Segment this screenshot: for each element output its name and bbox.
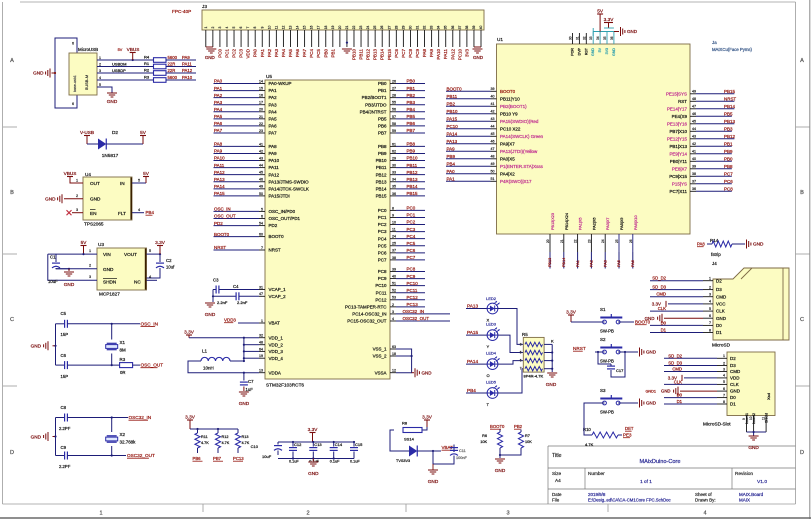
svg-text:SD_D2: SD_D2 (652, 276, 666, 281)
net label PC6 (396, 252, 425, 254)
U5 pin 10 PC2 (390, 224, 396, 226)
svg-text:19: 19 (331, 26, 335, 30)
svg-text:PC9: PC9 (407, 274, 416, 279)
svg-text:PB13: PB13 (376, 179, 387, 184)
svg-text:PA13: PA13 (447, 139, 458, 144)
svg-text:35: 35 (603, 36, 607, 40)
svg-text:PA12: PA12 (214, 170, 225, 175)
svg-text:PB9: PB9 (407, 149, 416, 154)
svg-text:4: 4 (99, 76, 101, 80)
svg-text:3: 3 (392, 310, 394, 314)
wire cap rail top (278, 441, 354, 443)
wire R5 out 4 (544, 368, 552, 370)
svg-text:2: 2 (89, 264, 91, 268)
svg-text:PB1: PB1 (330, 48, 335, 57)
svg-text:R2: R2 (144, 68, 150, 73)
svg-text:7: 7 (246, 26, 250, 28)
svg-text:46: 46 (259, 178, 263, 182)
svg-text:Number: Number (588, 471, 605, 476)
wire R5 out 3 (544, 360, 552, 362)
svg-text:PB8: PB8 (407, 142, 416, 147)
svg-text:GND: GND (753, 242, 764, 247)
XS2 pin 6 GND (717, 390, 727, 392)
svg-text:5V: 5V (598, 47, 602, 52)
svg-text:PC8: PC8 (407, 267, 416, 272)
U1 pin 49 PB15 (690, 93, 696, 95)
svg-text:23: 23 (587, 239, 591, 243)
net label PC9 (396, 278, 425, 280)
svg-text:C4: C4 (233, 284, 239, 289)
net label PA14 U1 (446, 135, 491, 137)
U5 pin 13 VDDA (259, 372, 265, 374)
svg-text:D1: D1 (677, 399, 683, 404)
wire R5 out 1 (544, 343, 552, 345)
U5 pin 34 PB13 (390, 181, 396, 183)
svg-text:R3: R3 (120, 357, 126, 362)
svg-text:B: B (800, 190, 804, 196)
J4 pin 1 D2 (703, 280, 713, 282)
svg-text:PB0|Y11: PB0|Y11 (670, 159, 688, 164)
svg-text:PA7: PA7 (269, 131, 278, 136)
svg-text:EN: EN (90, 211, 97, 216)
svg-text:PB3/JTDO: PB3/JTDO (365, 102, 387, 107)
svg-text:Date: Date (552, 492, 562, 497)
net label D1 J4 (650, 332, 703, 334)
svg-text:R4: R4 (144, 55, 150, 60)
svg-text:1: 1 (76, 179, 78, 183)
svg-text:U3: U3 (98, 242, 104, 247)
U5 pin 29 PB10 (390, 160, 396, 162)
svg-text:46: 46 (692, 112, 696, 116)
svg-text:46: 46 (491, 140, 495, 144)
svg-text:PA6: PA6 (295, 48, 300, 57)
svg-text:PC3: PC3 (378, 229, 387, 234)
svg-text:PB13|X23: PB13|X23 (551, 213, 555, 230)
U5 pin 45 PA12 (259, 174, 265, 176)
svg-text:C2: C2 (166, 258, 172, 263)
net label PA13 LED (466, 308, 487, 310)
net label PB1 (396, 90, 425, 92)
svg-text:5: 5 (232, 26, 236, 28)
svg-text:PE15|SYS: PE15|SYS (666, 91, 687, 96)
svg-text:PA14: PA14 (467, 359, 479, 364)
wire X1 left rail (55, 324, 57, 365)
svg-text:MAIX: MAIX (739, 498, 750, 503)
title block (548, 446, 796, 504)
U5 pin 41 PA8 (259, 145, 265, 147)
svg-text:PB2: PB2 (447, 102, 456, 107)
svg-text:PC1: PC1 (378, 215, 387, 220)
svg-text:PA0: PA0 (214, 79, 223, 84)
U5 pin 59 PB7 (390, 132, 396, 134)
wire USB pin5 (97, 87, 112, 93)
net label PB8 U1r (696, 168, 732, 170)
net label PA6 bottom (632, 252, 634, 269)
net label PA15 LED (466, 334, 487, 336)
svg-text:PA15/JTDI: PA15/JTDI (269, 193, 290, 198)
svg-text:GND: GND (205, 55, 216, 60)
svg-text:6: 6 (72, 102, 74, 106)
net label D0 J4 (650, 324, 703, 326)
svg-text:PA9|X7: PA9|X7 (500, 141, 515, 146)
svg-text:Drawn By:: Drawn By: (695, 498, 716, 503)
svg-text:PE14|Y17: PE14|Y17 (667, 106, 688, 111)
net label PB13 bottom (549, 252, 551, 269)
svg-text:O: O (487, 373, 490, 378)
svg-text:PB1: PB1 (378, 88, 387, 93)
svg-text:26: 26 (392, 79, 396, 83)
svg-text:SD_D2: SD_D2 (668, 353, 682, 358)
svg-text:SS14: SS14 (404, 437, 415, 442)
svg-text:1 of 1: 1 of 1 (640, 479, 652, 484)
svg-text:V1.0: V1.0 (757, 479, 767, 485)
svg-text:SD_D3: SD_D3 (668, 361, 682, 366)
capacitor C15 0.1uF (353, 442, 355, 447)
svg-text:BOOT0: BOOT0 (269, 234, 285, 239)
svg-text:PA8: PA8 (697, 242, 705, 247)
svg-text:31: 31 (415, 26, 419, 30)
svg-text:CMD: CMD (716, 294, 727, 299)
svg-text:10K: 10K (480, 440, 487, 444)
svg-text:44: 44 (259, 164, 263, 168)
U5 pin 48 VDD_2 (259, 344, 265, 346)
svg-text:Sheet of: Sheet of (695, 492, 712, 497)
svg-text:SW-PB: SW-PB (600, 359, 614, 364)
U5 pin 37 PC6 (390, 252, 396, 254)
svg-text:Title: Title (552, 453, 562, 459)
svg-text:11: 11 (762, 416, 766, 420)
svg-text:35: 35 (392, 185, 396, 189)
svg-text:10K: 10K (525, 440, 532, 444)
svg-text:7: 7 (520, 367, 522, 371)
U5 pin 5 OSC_IN/PD0 (259, 210, 265, 212)
svg-text:4.7K: 4.7K (585, 442, 594, 447)
net label SD_D2 XS2 (664, 357, 717, 359)
svg-text:PA11: PA11 (269, 165, 280, 170)
svg-text:8: 8 (723, 400, 725, 404)
ground R5 (547, 372, 557, 374)
U5 pin 19 VDD_4 (259, 357, 265, 359)
net label PA1 (214, 90, 260, 92)
svg-text:C6: C6 (61, 353, 67, 358)
svg-text:LED3: LED3 (486, 322, 497, 327)
svg-text:OSC32_IN: OSC32_IN (129, 415, 152, 420)
svg-text:Y: Y (487, 344, 490, 349)
svg-text:PB15: PB15 (387, 48, 392, 59)
svg-text:VDD_3: VDD_3 (269, 349, 284, 354)
svg-text:A: A (800, 58, 804, 64)
svg-text:D3: D3 (730, 363, 736, 368)
net label PC8 U1r (696, 190, 732, 192)
svg-text:D0: D0 (716, 323, 722, 328)
svg-text:62: 62 (392, 149, 396, 153)
svg-text:USBDM: USBDM (112, 61, 127, 66)
svg-text:17: 17 (259, 101, 263, 105)
svg-text:VDD: VDD (730, 376, 740, 381)
svg-text:C7: C7 (248, 379, 254, 384)
U5 pin 49 PA14/JTCK-SWCLK (259, 188, 265, 190)
wire R5 common (551, 344, 553, 372)
net label PB0 U1r (696, 160, 732, 162)
net label PC13 (396, 306, 425, 308)
U5 pin 47 VCAP_2 (259, 295, 265, 297)
svg-text:2.2PF: 2.2PF (59, 464, 71, 469)
ground R6R7 (495, 458, 505, 460)
svg-text:50: 50 (259, 192, 263, 196)
wire USB VBUS (97, 59, 154, 61)
net label PA6 (214, 125, 260, 127)
svg-text:GND: GND (31, 344, 42, 349)
svg-text:3: 3 (723, 367, 725, 371)
svg-text:50: 50 (491, 170, 495, 174)
svg-text:PB9: PB9 (447, 154, 456, 159)
net label PA1 U1 (446, 180, 491, 182)
svg-text:NRST: NRST (573, 346, 586, 351)
svg-text:PB5: PB5 (407, 114, 416, 119)
svg-text:B: B (10, 190, 14, 196)
svg-text:OSC32_OUT: OSC32_OUT (403, 316, 430, 321)
svg-text:3.3V: 3.3V (308, 427, 319, 432)
net label PA11 (214, 167, 260, 169)
net label PA5 (214, 118, 260, 120)
ground USB pin5 (107, 92, 117, 94)
svg-text:3: 3 (99, 69, 101, 73)
svg-text:VCAP_1: VCAP_1 (269, 287, 287, 292)
svg-text:61: 61 (392, 142, 396, 146)
svg-text:PA3: PA3 (603, 260, 607, 267)
svg-text:26: 26 (380, 26, 384, 30)
svg-text:PC7: PC7 (378, 257, 387, 262)
wire R5 out 2 (544, 352, 552, 354)
svg-text:38: 38 (392, 256, 396, 260)
svg-text:4: 4 (225, 26, 229, 28)
svg-text:15: 15 (303, 26, 307, 30)
svg-text:CLK: CLK (716, 309, 725, 314)
net label NRST U1r (696, 100, 734, 102)
svg-text:PB14: PB14 (380, 48, 385, 59)
svg-text:PA0: PA0 (447, 169, 456, 174)
svg-text:PB1: PB1 (724, 142, 733, 147)
svg-text:C12: C12 (294, 442, 302, 447)
svg-text:C11: C11 (459, 449, 466, 453)
svg-text:J4: J4 (712, 261, 717, 266)
svg-text:DVP: DVP (577, 47, 581, 55)
svg-text:PC4: PC4 (309, 48, 314, 57)
svg-text:PC13: PC13 (233, 456, 244, 461)
svg-text:PB6: PB6 (193, 456, 202, 461)
svg-text:RST: RST (678, 99, 687, 104)
net label PA8 (214, 145, 260, 147)
svg-text:NRST: NRST (269, 248, 281, 253)
svg-text:5600: 5600 (168, 55, 178, 60)
XS2 pin 8 D1 (717, 403, 727, 405)
wire U3 left rail (48, 254, 97, 280)
svg-text:10: 10 (749, 416, 753, 420)
U5 pin 3 PC14-OSC32_IN (390, 313, 396, 315)
J4 pin 2 D3 (703, 289, 713, 291)
net label PB12 U1r (696, 138, 734, 140)
svg-text:31: 31 (259, 285, 263, 289)
wire LED4 to R5 (498, 361, 523, 365)
net label PA2 bottom (590, 252, 592, 269)
svg-text:PA8: PA8 (214, 142, 223, 147)
net label BOOT0 (214, 236, 260, 238)
net label PB2 U1 (446, 105, 491, 107)
svg-text:6: 6 (239, 26, 243, 28)
svg-text:43: 43 (491, 117, 495, 121)
svg-text:22R: 22R (168, 61, 176, 66)
svg-text:8: 8 (709, 328, 711, 332)
J4 pin 7 D0 (703, 324, 713, 326)
U5 pin 52 PC11 (390, 292, 396, 294)
svg-text:PB12: PB12 (366, 48, 371, 59)
svg-text:R12: R12 (222, 435, 229, 439)
net label D1 XS2 (664, 403, 717, 405)
svg-text:37: 37 (458, 26, 462, 30)
svg-text:47: 47 (259, 292, 263, 296)
ground J3 middle (342, 48, 352, 50)
svg-text:D: D (800, 450, 804, 456)
svg-text:7: 7 (723, 393, 725, 397)
svg-text:C: C (800, 317, 804, 323)
svg-text:16: 16 (310, 26, 314, 30)
U1 pin 51 PA1 (491, 180, 497, 182)
U5 pin 60 BOOT0 (259, 236, 265, 238)
svg-text:PD2: PD2 (214, 221, 223, 226)
ground XS2 (680, 390, 717, 392)
U1 top pin 6 (606, 32, 608, 45)
U1 pin 46 PB5 (690, 115, 696, 117)
svg-text:10uF: 10uF (48, 279, 58, 284)
net label PB14 bottom (563, 252, 565, 269)
svg-text:GND: GND (31, 435, 42, 440)
svg-text:21: 21 (560, 239, 564, 243)
svg-text:DET: DET (625, 426, 634, 431)
svg-text:18: 18 (324, 26, 328, 30)
svg-text:BOOT0: BOOT0 (214, 232, 230, 237)
U5 pin 20 PA4 (259, 111, 265, 113)
svg-text:GND: GND (546, 382, 557, 387)
svg-text:PC2: PC2 (232, 48, 237, 57)
U5 pin 30 PB11 (390, 167, 396, 169)
U1 pin 39 PB8 (690, 168, 696, 170)
svg-text:1: 1 (723, 354, 725, 358)
svg-text:10uF: 10uF (262, 454, 272, 459)
U5 pin 51 PC10 (390, 285, 396, 287)
svg-text:28: 28 (394, 26, 398, 30)
svg-text:OUT: OUT (90, 181, 100, 186)
svg-text:PA11: PA11 (182, 61, 192, 66)
svg-text:10nH: 10nH (203, 366, 214, 371)
U5 pin 7 NRST (259, 249, 265, 251)
svg-text:GND: GND (591, 48, 595, 56)
XS2 pin 5 CLK (717, 383, 727, 385)
svg-text:PC6: PC6 (378, 250, 387, 255)
svg-text:21: 21 (259, 115, 263, 119)
net label PB7 (396, 132, 425, 134)
svg-text:37: 37 (692, 180, 696, 184)
net label OSC32_IN (396, 313, 450, 315)
svg-text:41: 41 (259, 142, 263, 146)
ground U1 top (614, 31, 619, 33)
svg-text:10uf: 10uf (166, 265, 175, 270)
svg-text:1: 1 (99, 511, 102, 517)
svg-text:64: 64 (259, 347, 263, 351)
U5 pin 38 PC7 (390, 259, 396, 261)
svg-text:VOUT: VOUT (124, 252, 137, 257)
svg-text:VBUS: VBUS (64, 171, 77, 176)
svg-text:PC13-TAMPER-RTC: PC13-TAMPER-RTC (345, 304, 387, 309)
svg-text:PB4: PB4 (467, 388, 476, 393)
svg-text:PA1: PA1 (447, 177, 456, 182)
svg-text:48: 48 (692, 97, 696, 101)
U5 pin 25 PC5 (390, 245, 396, 247)
wire LED3 to R5 (498, 335, 523, 352)
svg-text:41: 41 (491, 102, 495, 106)
U1 top pin 7 (613, 32, 615, 45)
svg-text:VDD_2: VDD_2 (269, 342, 284, 347)
svg-text:Size: Size (552, 471, 562, 476)
svg-text:PA9: PA9 (269, 151, 278, 156)
svg-text:BOOT0: BOOT0 (500, 89, 516, 94)
net label PC8 (396, 271, 425, 273)
svg-text:2: 2 (76, 194, 78, 198)
net label PC7 U1r (696, 175, 732, 177)
svg-text:4: 4 (149, 275, 151, 279)
svg-text:PB11|Y10: PB11|Y10 (500, 96, 520, 101)
svg-text:3: 3 (76, 208, 78, 212)
net label NRST (214, 249, 260, 251)
svg-text:2.2nF: 2.2nF (217, 300, 228, 305)
svg-text:PC7|X11: PC7|X11 (670, 189, 688, 194)
svg-text:PB10: PB10 (447, 109, 458, 114)
svg-text:3: 3 (506, 511, 509, 517)
svg-text:40: 40 (692, 157, 696, 161)
svg-text:PA12: PA12 (182, 68, 193, 73)
svg-text:PC0: PC0 (407, 206, 416, 211)
net label SD_D2 J4 (650, 280, 703, 282)
svg-text:C1: C1 (50, 255, 56, 260)
svg-text:IN: IN (120, 181, 125, 186)
svg-text:PA12: PA12 (269, 172, 280, 177)
net label PA9 U1 (446, 150, 491, 152)
net label CMD XS2 (664, 371, 717, 373)
capacitor C14 0.1uF (333, 442, 335, 447)
U1 pin 36 PC8 (690, 190, 696, 192)
svg-text:PC12: PC12 (375, 297, 387, 302)
net label PB8 (396, 145, 425, 147)
svg-text:3.3V: 3.3V (604, 17, 615, 22)
ground U3 (68, 269, 70, 271)
svg-text:20: 20 (338, 26, 342, 30)
svg-text:PB7: PB7 (407, 128, 416, 133)
U5 pin 54 PD2 (259, 225, 265, 227)
svg-text:GND: GND (716, 316, 727, 321)
svg-text:36: 36 (610, 36, 614, 40)
svg-text:2: 2 (306, 511, 309, 517)
resistor R11 4.7K (197, 429, 199, 433)
svg-text:17: 17 (317, 26, 321, 30)
svg-text:36: 36 (392, 192, 396, 196)
svg-text:PB2: PB2 (514, 424, 523, 429)
svg-text:PC10: PC10 (375, 283, 387, 288)
XS2 pin 4 VDD (717, 377, 727, 379)
XS2 pin 1 D2 (717, 357, 727, 359)
svg-text:S2: S2 (600, 337, 606, 342)
resistor R6 10K (499, 430, 501, 433)
svg-text:PA9: PA9 (429, 48, 434, 57)
net label OSC_OUT (214, 218, 260, 220)
